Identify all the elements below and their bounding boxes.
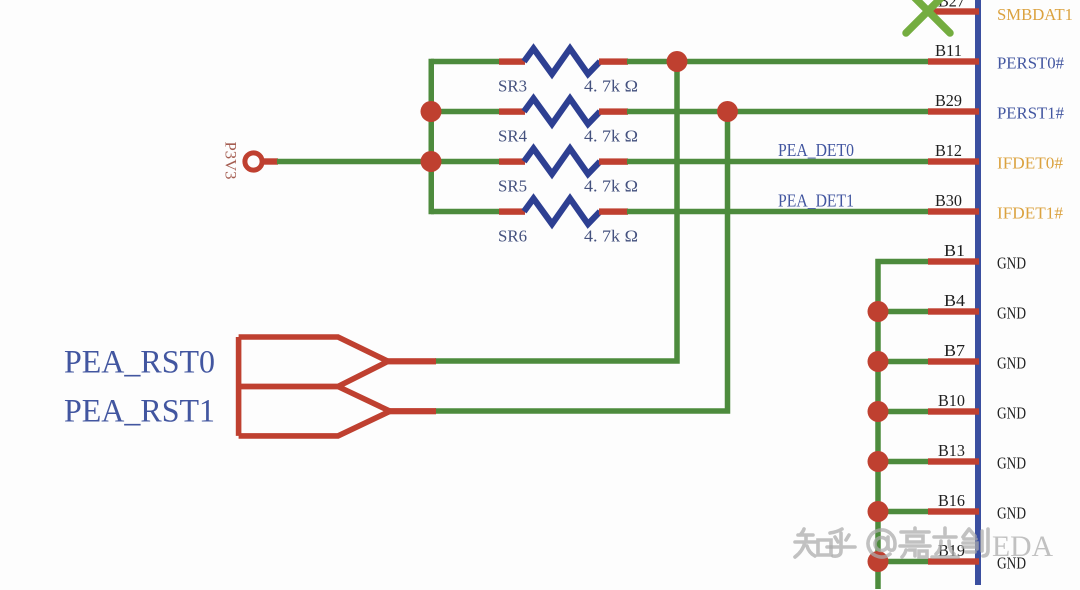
pin B13	[928, 441, 1026, 473]
svg-text:4. 7k Ω: 4. 7k Ω	[584, 77, 638, 96]
svg-text:SR5: SR5	[498, 177, 527, 196]
junction at bus SR4	[421, 101, 442, 122]
watermark char zhi	[795, 529, 831, 557]
wire P3V3 to bus	[277, 159, 434, 165]
svg-text:B29: B29	[935, 91, 962, 110]
svg-text:B1: B1	[944, 241, 965, 260]
wire bus to SR3	[431, 59, 501, 65]
svg-text:4. 7k Ω: 4. 7k Ω	[584, 127, 638, 146]
wire left vertical bus	[429, 59, 435, 215]
watermark char li	[932, 528, 958, 557]
wire to B7	[878, 359, 928, 365]
svg-text:B10: B10	[938, 391, 965, 410]
svg-text:SMBDAT1: SMBDAT1	[997, 5, 1073, 24]
pin B11	[928, 41, 1064, 73]
pin B16	[928, 491, 1026, 523]
wire bus to SR5	[431, 159, 501, 165]
wire to B4	[878, 309, 928, 315]
svg-text:PEA_RST0: PEA_RST0	[64, 345, 215, 381]
pin B30	[928, 191, 1063, 223]
svg-text:B13: B13	[938, 441, 965, 460]
wire GND chain from B1	[878, 262, 928, 590]
svg-text:B7: B7	[944, 341, 965, 360]
pin B7	[928, 341, 1026, 373]
watermark char jia	[900, 528, 930, 557]
junction B7	[868, 351, 889, 372]
svg-text:B16: B16	[938, 491, 965, 510]
resistor SR3	[498, 49, 638, 96]
connector body edge	[975, 0, 981, 585]
pin B10	[928, 391, 1026, 423]
watermark char hu	[827, 529, 855, 556]
watermark	[795, 528, 1053, 563]
svg-text:PEA_DET0: PEA_DET0	[778, 140, 854, 160]
wire to B19	[878, 559, 928, 565]
svg-text:PERST1#: PERST1#	[997, 104, 1064, 123]
wire SR4 to pin B29	[627, 109, 928, 115]
wire bus to SR6	[431, 209, 501, 215]
svg-text:GND: GND	[997, 354, 1026, 373]
svg-text:SR4: SR4	[498, 127, 527, 146]
pin B1	[928, 241, 1026, 273]
wire SR5 to pin B12 net PEA_DET0	[627, 159, 928, 165]
pin B12	[928, 141, 1063, 173]
svg-text:IFDET0#: IFDET0#	[997, 154, 1063, 173]
pin B4	[928, 291, 1026, 323]
wire SR3 to pin B11	[627, 59, 928, 65]
svg-text:GND: GND	[997, 254, 1026, 273]
svg-text:PERST0#: PERST0#	[997, 54, 1064, 73]
power port P3V3	[222, 142, 279, 180]
svg-text:GND: GND	[997, 304, 1026, 323]
flag PEA_RST0	[64, 337, 436, 387]
junction B13	[868, 451, 889, 472]
resistor SR5	[498, 149, 638, 196]
svg-text:EDA: EDA	[992, 530, 1053, 563]
pin B19	[928, 541, 1026, 573]
resistor SR4	[498, 99, 638, 146]
junction SR4 row	[717, 101, 738, 122]
svg-text:4. 7k Ω: 4. 7k Ω	[584, 177, 638, 196]
junction B4	[868, 301, 889, 322]
wire to B13	[878, 459, 928, 465]
svg-text:SR6: SR6	[498, 227, 527, 246]
wire to B10	[878, 409, 928, 415]
svg-text:4. 7k Ω: 4. 7k Ω	[584, 227, 638, 246]
svg-text:B11: B11	[935, 41, 962, 60]
svg-text:GND: GND	[997, 454, 1026, 473]
wire to B16	[878, 509, 928, 515]
svg-text:PEA_RST1: PEA_RST1	[64, 394, 215, 430]
junction B10	[868, 401, 889, 422]
svg-text:GND: GND	[997, 404, 1026, 423]
wire bus to SR4	[431, 109, 501, 115]
pin B27	[928, 0, 979, 15]
svg-text:IFDET1#: IFDET1#	[997, 204, 1063, 223]
watermark char chuang	[963, 529, 988, 556]
wire vertical PEA_RST1	[435, 112, 728, 412]
svg-text:B4: B4	[944, 291, 965, 310]
junction B19	[868, 551, 889, 572]
svg-text:P3V3: P3V3	[222, 142, 239, 180]
junction B16	[868, 501, 889, 522]
svg-text:B12: B12	[935, 141, 962, 160]
wire SR6 to pin B30 net PEA_DET1	[627, 209, 928, 215]
svg-text:SR3: SR3	[498, 77, 527, 96]
resistor SR6	[498, 199, 638, 246]
svg-text:B30: B30	[935, 191, 962, 210]
wire vertical PEA_RST0	[435, 62, 677, 362]
no-connect X on B27	[906, 0, 950, 33]
watermark char at	[868, 530, 895, 557]
svg-text:PEA_DET1: PEA_DET1	[778, 191, 854, 211]
svg-text:GND: GND	[997, 504, 1026, 523]
junction SR3 row	[667, 51, 688, 72]
flag PEA_RST1	[64, 337, 436, 436]
junction at bus P3V3	[421, 151, 442, 172]
pin B29	[928, 91, 1064, 123]
